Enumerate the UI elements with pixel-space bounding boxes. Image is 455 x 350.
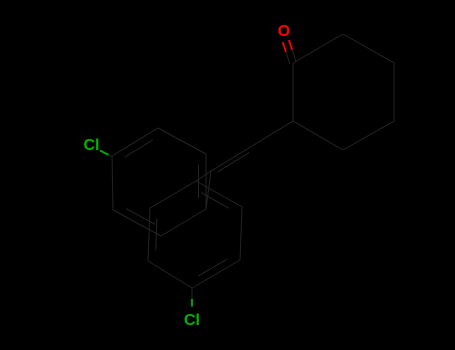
Cl left bond (green half) [100, 151, 109, 155]
Cl bottom bond (green half) [191, 288, 193, 299]
chain bond BL-Ca [252, 121, 293, 146]
chain C=C double bond Ca-X [211, 146, 252, 171]
bottom chlorophenyl ring [196, 181, 242, 207]
svg-text:O: O [278, 23, 290, 40]
bond X - left ring ipso [206, 171, 211, 209]
svg-text:Cl: Cl [184, 312, 200, 329]
bond X - bottom ring ipso [196, 171, 211, 181]
carbonyl C=O double bond [292, 50, 296, 62]
left chlorophenyl ring [112, 128, 158, 156]
svg-text:Cl: Cl [84, 137, 100, 154]
ring R1 cyclohexanone [343, 34, 394, 63]
